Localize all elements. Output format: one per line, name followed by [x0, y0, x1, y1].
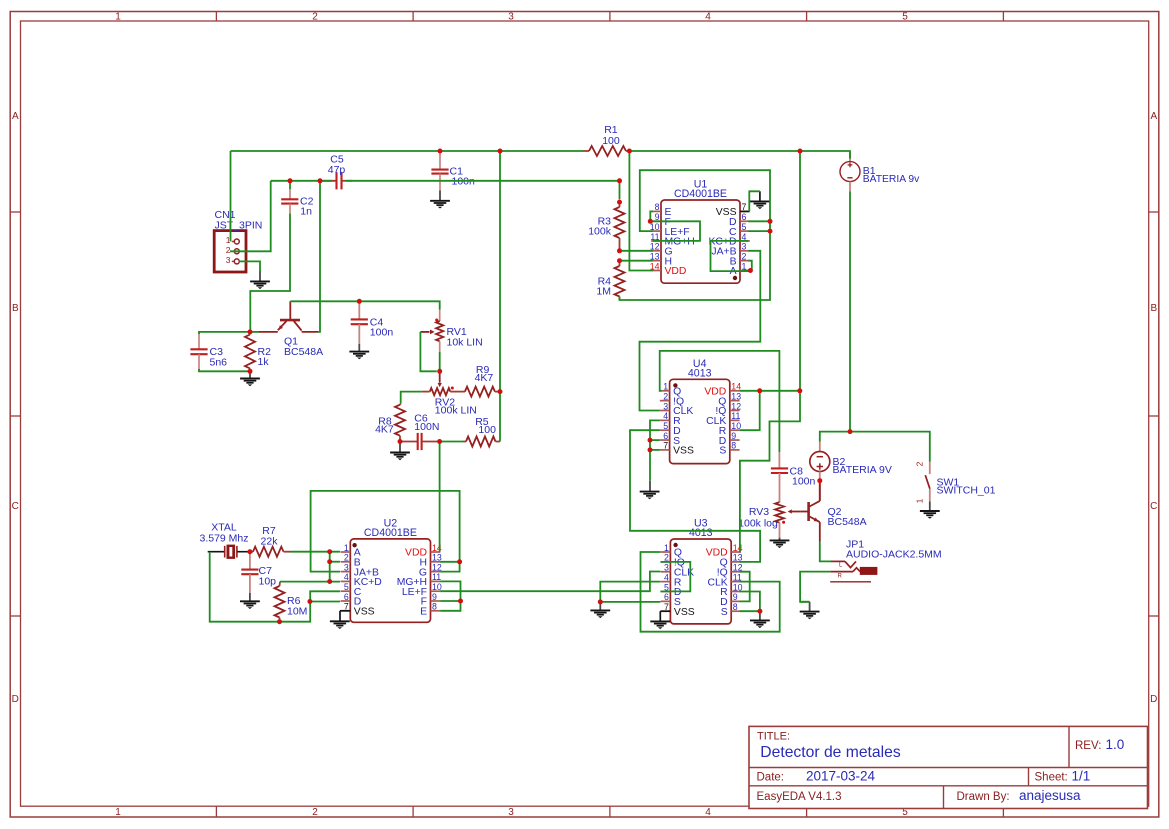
wire U1 pin6 D stub to x770 — [748, 220, 770, 222]
svg-text:100n: 100n — [370, 327, 394, 339]
junction dot (650,440.1) — [648, 438, 653, 443]
svg-text:VDD: VDD — [665, 266, 687, 277]
wire XTAL R7 node to U2 pin1 — [291, 551, 341, 553]
wire Q1 emitter stub — [250, 331, 259, 333]
svg-text:VSS: VSS — [673, 446, 694, 457]
svg-text:RV3: RV3 — [749, 506, 769, 518]
wire B1 bottom down to B2 node — [849, 192, 851, 432]
wire C6 node down to U2 pin14 VDD — [439, 442, 441, 552]
junction dot (460.5,601) — [458, 599, 463, 604]
svg-text:11: 11 — [432, 572, 441, 582]
junction dot (619.5,202.1) — [617, 200, 622, 205]
wire RV1 wiper to bottom terminal — [420, 332, 436, 371]
svg-text:2: 2 — [312, 12, 318, 23]
wire Q1 base node y=301 run to C4 and RV1 — [290, 301, 439, 309]
wire U2 pin10 to U3 pin3 CLK — [440, 572, 660, 592]
junction dot (759.9,611.2) — [757, 609, 762, 614]
wire XTAL left down around to U2 pins 5 6 — [210, 552, 340, 622]
svg-text:10p: 10p — [259, 576, 277, 588]
junction dot (250,331.9) — [248, 329, 253, 334]
wire U2 pin13 stub to loop — [440, 561, 459, 563]
ground for CN1 pin3 — [259, 271, 261, 281]
capacitor C1 — [439, 151, 441, 170]
wire U1 pin1 stub to node — [744, 270, 750, 272]
svg-text:D: D — [1150, 694, 1157, 705]
switch SW1 SWITCH_01 — [929, 462, 931, 474]
svg-text:2017-03-24: 2017-03-24 — [806, 769, 876, 784]
wire C5 right to R3 top node — [346, 181, 620, 200]
svg-text:9: 9 — [733, 592, 738, 602]
junction dot (500,151) — [498, 149, 503, 154]
wire U1 pin2 jog to pin1 node — [748, 261, 751, 271]
svg-text:3: 3 — [344, 562, 349, 572]
svg-text:4: 4 — [344, 572, 349, 582]
ground for U3 right pins 10 8 — [759, 611, 761, 620]
wire long vertical x=500 from rail to R5 — [499, 151, 501, 442]
svg-text:6: 6 — [663, 431, 668, 441]
svg-text:3: 3 — [664, 563, 669, 573]
svg-text:VSS: VSS — [674, 607, 695, 618]
junction dot (249.9,551.7) — [247, 549, 252, 554]
wire U1 pin4 KC+D loop to pins 1 2 — [711, 241, 751, 271]
svg-text:2: 2 — [663, 391, 668, 401]
svg-text:6: 6 — [344, 592, 349, 602]
resistor R4 — [619, 261, 621, 266]
IC U4 4013 dual flip-flop — [670, 379, 730, 463]
wire CN1 pin1 to top rail — [230, 151, 232, 241]
junction dot (619.5,180.8) — [617, 178, 622, 183]
junction dot (439.6,441.5) — [437, 439, 442, 444]
svg-text:8: 8 — [655, 202, 660, 212]
junction dot (309.9,601.5) — [307, 599, 312, 604]
IC U3 4013 dual flip-flop — [670, 539, 731, 624]
svg-text:4K7: 4K7 — [475, 372, 494, 384]
wire U2 pin3 loop to pins 12 13 — [311, 491, 460, 572]
svg-text:100k: 100k — [588, 226, 612, 238]
wire R1 node down to U1 pin14 VDD — [629, 151, 652, 271]
wire C8 top to U4 pin1 Q — [660, 351, 780, 452]
wire U3 pin10 R and pin8 S to ground — [740, 592, 760, 612]
junction dot (439.7,371.3) — [437, 369, 442, 374]
wire U1 pin5 C stub to x770 — [748, 230, 770, 232]
junction dot (770,231.1) — [768, 229, 773, 234]
svg-text:5: 5 — [663, 421, 668, 431]
resistor R1 — [583, 150, 589, 152]
svg-text:BATERIA 9V: BATERIA 9V — [833, 464, 892, 476]
junction dot (619.5,260.7) — [617, 258, 622, 263]
wire U3 pin12 !Q to pin9 D — [740, 572, 750, 602]
transistor Q2 BC548A — [801, 511, 809, 513]
svg-text:2: 2 — [742, 251, 747, 261]
wire C3 bottom to R2 bottom node — [199, 369, 250, 371]
battery B2 BATERIA 9V — [819, 442, 821, 452]
wire U2 pin9 stub to chain — [440, 600, 460, 602]
battery B1 BATERIA 9v — [849, 152, 851, 161]
wire U2 pins 8 9 11 chain — [440, 581, 460, 610]
svg-text:3: 3 — [226, 255, 231, 265]
svg-text:AUDIO-JACK2.5MM: AUDIO-JACK2.5MM — [846, 549, 942, 561]
capacitor C4 — [358, 301, 360, 319]
wire Q2 emitter to JP1 L — [820, 542, 831, 562]
svg-text:Date:: Date: — [757, 772, 785, 784]
svg-text:22k: 22k — [261, 536, 279, 548]
svg-text:4K7: 4K7 — [375, 424, 394, 436]
svg-text:8: 8 — [432, 602, 437, 612]
svg-text:2: 2 — [312, 807, 318, 818]
junction dot (459.6,561.8) — [457, 559, 462, 564]
capacitor C7 — [249, 552, 251, 570]
junction dot (400,441.5) — [398, 439, 403, 444]
wire x=320 branch down to Q1 collector — [318, 181, 320, 332]
wire C6 node to R5 left — [440, 441, 463, 443]
wire RV2 left terminal to R8 — [401, 392, 422, 404]
svg-text:2: 2 — [226, 245, 231, 255]
junction dot (759.7,390.8) — [757, 388, 762, 393]
svg-text:8: 8 — [731, 441, 736, 451]
svg-text:1: 1 — [115, 12, 121, 23]
svg-text:EasyEDA V4.1.3: EasyEDA V4.1.3 — [757, 791, 842, 803]
svg-text:5: 5 — [902, 12, 908, 23]
junction dot (600.3,601.9) — [598, 599, 603, 604]
svg-text:4: 4 — [705, 12, 711, 23]
svg-text:2: 2 — [344, 553, 349, 563]
svg-text:CD4001BE: CD4001BE — [674, 188, 727, 200]
svg-text:10M: 10M — [287, 606, 307, 618]
svg-text:3.579 Mhz: 3.579 Mhz — [199, 533, 248, 545]
capacitor C5 — [320, 180, 337, 182]
svg-text:Sheet:: Sheet: — [1035, 772, 1068, 784]
svg-text:100: 100 — [602, 135, 620, 147]
wire U2 pin6 stub to node — [310, 601, 340, 603]
junction dot (750.4,270.5) — [748, 268, 753, 273]
resistor R7 — [250, 551, 253, 553]
wire CN1 pin2 up to y=181 node — [230, 181, 271, 252]
svg-text:1n: 1n — [300, 205, 312, 217]
potentiometer RV1 — [439, 310, 441, 322]
wire JP1 R to ground — [800, 572, 830, 602]
wire U4 pin7 VSS stub — [650, 449, 660, 451]
junction dot (650,449.9) — [648, 447, 653, 452]
ground for U2 VSS — [340, 610, 350, 612]
wire RV1 bottom to RV2 node — [439, 352, 441, 371]
svg-text:5n6: 5n6 — [210, 356, 228, 368]
svg-text:S: S — [721, 607, 728, 618]
svg-text:1k: 1k — [258, 356, 270, 368]
junction dot (359.3,301.3) — [357, 299, 362, 304]
svg-text:4: 4 — [663, 411, 668, 421]
ground for U4 pins 4 6 7 — [649, 481, 651, 492]
svg-text:9: 9 — [432, 592, 437, 602]
ground for R2 C3 — [249, 371, 251, 378]
wire CN1 pin3 to ground — [239, 261, 260, 272]
svg-text:1/1: 1/1 — [1072, 769, 1091, 784]
svg-text:TITLE:: TITLE: — [757, 731, 790, 743]
svg-text:14: 14 — [733, 543, 743, 553]
svg-text:4: 4 — [664, 572, 669, 582]
junction dot (850,431.6) — [848, 429, 853, 434]
svg-text:JST_3PIN: JST_3PIN — [215, 220, 263, 232]
svg-text:13: 13 — [731, 391, 741, 401]
wire R3 bottom node to U1 pin12 G — [620, 250, 653, 252]
svg-text:8: 8 — [733, 602, 738, 612]
svg-text:4013: 4013 — [689, 527, 713, 539]
svg-text:BC548A: BC548A — [828, 516, 867, 528]
wire B2 top to rail node and SW1 — [820, 432, 930, 462]
wire R4 bottom loop to U1 pins 5 6 and pin10 — [620, 170, 771, 300]
svg-text:4013: 4013 — [688, 368, 712, 380]
svg-text:1: 1 — [344, 543, 349, 553]
svg-text:12: 12 — [731, 401, 741, 411]
svg-text:100: 100 — [478, 424, 496, 436]
svg-text:3: 3 — [508, 12, 514, 23]
svg-text:BATERIA 9v: BATERIA 9v — [863, 174, 920, 185]
svg-text:B: B — [12, 303, 19, 314]
svg-text:1: 1 — [664, 543, 669, 553]
wire R6 top to U2 pin4 KC+D — [280, 581, 340, 583]
IC U1 CD4001BE quad NOR gate — [661, 200, 740, 283]
wire U4 pin5 D to U3 pin13 Q — [630, 430, 760, 562]
junction dot (500,391.6) — [498, 389, 503, 394]
svg-text:1: 1 — [915, 498, 925, 503]
capacitor C6 — [400, 441, 418, 443]
svg-text:10k LIN: 10k LIN — [447, 337, 483, 349]
wire y=181 node run C2 C5 — [271, 180, 332, 182]
junction dot (799.8,390.8) — [797, 388, 802, 393]
svg-text:5: 5 — [344, 582, 349, 592]
capacitor C8 — [778, 452, 780, 468]
junction dot (320,180.8) — [318, 178, 323, 183]
svg-text:R: R — [838, 574, 843, 580]
potentiometer RV2 — [439, 371, 441, 383]
svg-text:A: A — [12, 111, 19, 122]
svg-text:S: S — [719, 446, 726, 457]
svg-text:Detector de metales: Detector de metales — [760, 744, 901, 761]
svg-text:100n: 100n — [792, 476, 816, 488]
ground for C4 — [349, 351, 369, 353]
wire U4 pin10 R to VDD row — [740, 391, 760, 430]
svg-text:3: 3 — [742, 242, 747, 252]
ground for U1 VSS — [740, 210, 749, 212]
svg-text:4: 4 — [705, 807, 711, 818]
capacitor C2 — [289, 181, 291, 190]
svg-text:SWITCH_01: SWITCH_01 — [937, 485, 996, 497]
resistor R8 — [399, 403, 402, 406]
svg-text:C: C — [12, 501, 19, 512]
svg-text:7: 7 — [663, 441, 668, 451]
wire R4 top node to U1 pin13 H — [620, 260, 653, 262]
svg-text:1.0: 1.0 — [1106, 737, 1125, 752]
transistor Q1 BC548A — [289, 301, 291, 320]
junction dot (650.3,221.3) — [648, 219, 653, 224]
svg-text:B: B — [1150, 303, 1157, 314]
wire U1 pin7 VSS to ground jog — [749, 191, 760, 211]
wire U1 pin3 JA+B down to U4 pin3 CLK — [640, 251, 761, 411]
junction dot (440,151) — [438, 149, 443, 154]
junction dot (329.7,551.7) — [327, 549, 332, 554]
svg-text:CD4001BE: CD4001BE — [364, 527, 417, 539]
ground for C7 — [240, 600, 260, 602]
wire C3 top to base node — [199, 332, 250, 334]
junction dot (329.7,561.7) — [327, 559, 332, 564]
resistor R3 — [619, 202, 621, 207]
title block — [749, 726, 1148, 808]
audio jack JP1 AUDIO-JACK2.5MM — [831, 560, 845, 562]
svg-text:9: 9 — [731, 431, 736, 441]
junction dot (290,180.8) — [288, 178, 293, 183]
svg-text:BC548A: BC548A — [284, 346, 323, 358]
wire U3 pin4 R and pin6 S to ground — [600, 582, 660, 602]
svg-text:1: 1 — [115, 807, 121, 818]
wire +9V top rail y=151 right of R1 to B1 — [629, 151, 850, 159]
svg-text:REV:: REV: — [1075, 740, 1101, 752]
svg-text:6: 6 — [664, 592, 669, 602]
resistor R6 — [279, 582, 282, 586]
svg-text:D: D — [12, 694, 19, 705]
svg-text:100k LIN: 100k LIN — [435, 405, 477, 417]
connector CN1 JST_3PIN — [214, 231, 246, 272]
junction dot (619.5,250.8) — [617, 248, 622, 253]
potentiometer RV3 — [775, 502, 784, 523]
IC U2 CD4001BE quad NOR gate — [350, 539, 430, 622]
svg-text:100k log: 100k log — [738, 518, 778, 530]
resistor R2 — [249, 332, 251, 335]
svg-text:47p: 47p — [328, 164, 346, 176]
svg-text:VSS: VSS — [354, 607, 375, 618]
svg-text:C: C — [1150, 501, 1157, 512]
svg-text:Drawn By:: Drawn By: — [957, 791, 1010, 803]
resistor R9 — [465, 387, 495, 397]
wire U4 pin14 VDD row to rail — [740, 390, 800, 392]
ground for U3 left pins 4 6 — [599, 602, 601, 610]
junction dot (279.5,621.7) — [277, 619, 282, 624]
wire U2 pins 1 2 4 vertical tie — [329, 552, 331, 582]
resistor R5 — [463, 441, 466, 443]
crystal XTAL 3.579 Mhz — [208, 551, 225, 553]
svg-text:6: 6 — [742, 212, 747, 222]
svg-text:1: 1 — [663, 382, 668, 392]
junction dot (629.4,151) — [627, 149, 632, 154]
wire +9V rail down x=800 to U3 pin14 VDD — [740, 151, 800, 552]
svg-text:5: 5 — [742, 222, 747, 232]
svg-text:E: E — [420, 607, 427, 618]
wire C2 bottom to Q1 base node — [250, 214, 290, 333]
svg-text:3: 3 — [508, 807, 514, 818]
ground for C1 — [430, 200, 450, 202]
svg-text:A: A — [1150, 111, 1157, 122]
wire U4 pin4 R to ground chain — [650, 420, 660, 480]
junction dot (800,151) — [798, 149, 803, 154]
ground for R8 — [399, 442, 401, 453]
junction dot (250,371.3) — [248, 369, 253, 374]
svg-text:11: 11 — [731, 411, 740, 421]
wire U2 pin2 stub — [330, 561, 340, 563]
junction dot (819.8,480.7) — [817, 478, 822, 483]
capacitor C3 — [198, 333, 200, 349]
svg-text:100N: 100N — [414, 421, 439, 433]
wire U3 pin1 Q to pin11 CLK under box — [641, 552, 780, 632]
wire U4 pin6 S stub — [650, 439, 660, 441]
ground for JP1 — [800, 601, 810, 603]
ground for RV3 — [770, 539, 790, 541]
svg-text:anajesusa: anajesusa — [1019, 788, 1081, 803]
ground for SW1 — [929, 502, 931, 511]
svg-text:2: 2 — [915, 461, 925, 466]
svg-text:1M: 1M — [596, 286, 611, 298]
wire +9V top rail y=151 left of R1 — [231, 150, 584, 152]
svg-text:3: 3 — [663, 401, 668, 411]
ground for U3 VSS — [660, 610, 670, 612]
junction dot (770,221.3) — [768, 219, 773, 224]
wire U3 pin2 !Q over box to pin5 D — [660, 562, 690, 592]
junction dot (329.7,581.5) — [327, 579, 332, 584]
wire U1 pins 8 9 to pin11 loop — [650, 211, 653, 221]
